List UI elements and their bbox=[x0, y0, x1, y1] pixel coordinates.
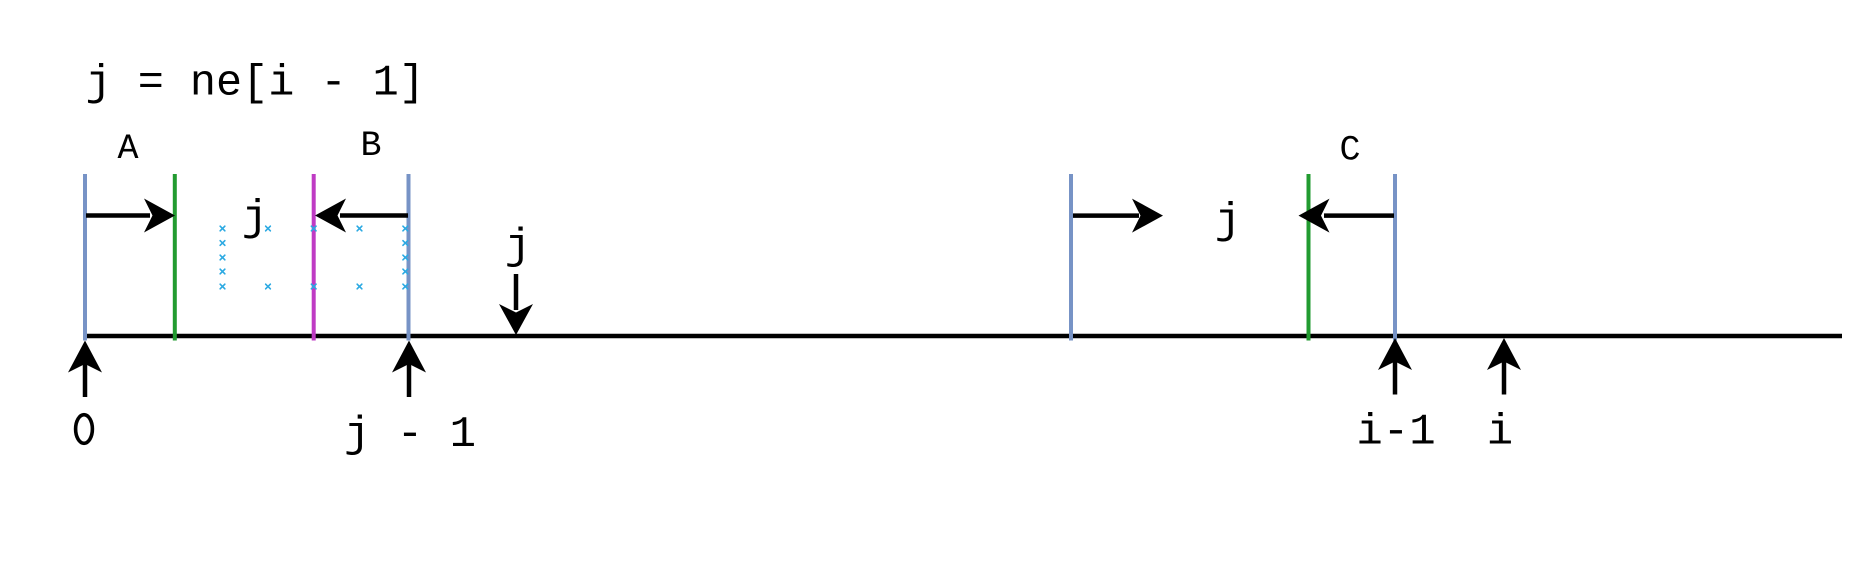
svg-text:j - 1: j - 1 bbox=[344, 410, 476, 460]
svg-text:j: j bbox=[505, 222, 531, 272]
svg-text:j = ne[i - 1]: j = ne[i - 1] bbox=[86, 60, 425, 109]
svg-text:i: i bbox=[1487, 408, 1513, 458]
svg-text:A: A bbox=[117, 129, 138, 169]
svg-text:j: j bbox=[1215, 197, 1241, 247]
svg-text:C: C bbox=[1339, 131, 1360, 171]
svg-text:i-1: i-1 bbox=[1356, 408, 1435, 458]
svg-text:j: j bbox=[242, 194, 268, 244]
svg-text:B: B bbox=[360, 126, 381, 166]
